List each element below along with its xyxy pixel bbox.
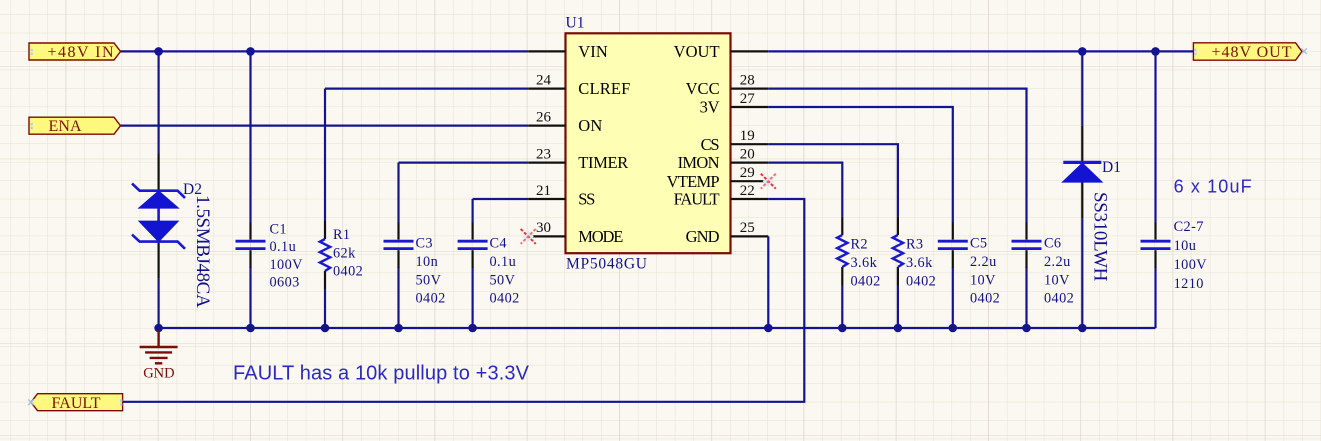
wire D2 vertical bottom xyxy=(158,279,160,328)
wire R2 vertical bottom xyxy=(841,286,843,329)
svg-text:+48V OUT: +48V OUT xyxy=(1212,44,1292,61)
pin ON stub xyxy=(528,124,565,126)
svg-text:0402: 0402 xyxy=(851,273,881,289)
pin IMON stub xyxy=(731,162,769,164)
svg-text:3V: 3V xyxy=(700,98,720,117)
svg-text:0402: 0402 xyxy=(1044,291,1074,307)
wire IMON to R2 xyxy=(768,163,842,217)
svg-text:0603: 0603 xyxy=(270,275,300,291)
svg-text:0402: 0402 xyxy=(970,291,1000,307)
junction top at C2-7 xyxy=(1151,47,1160,56)
ground xyxy=(140,330,178,363)
svg-text:ON: ON xyxy=(578,116,602,135)
wire R1 vertical bottom xyxy=(324,290,326,328)
wire C4 vertical bottom xyxy=(472,268,474,329)
svg-text:29: 29 xyxy=(740,165,755,181)
svg-text:VIN: VIN xyxy=(578,42,608,61)
wire D1 vertical bottom xyxy=(1081,219,1083,328)
wire D1 vertical top xyxy=(1081,51,1083,125)
svg-text:CS: CS xyxy=(701,135,720,154)
svg-text:100V: 100V xyxy=(1174,257,1208,273)
svg-text:10n: 10n xyxy=(416,254,439,270)
svg-text:28: 28 xyxy=(740,72,755,88)
svg-text:FAULT has a 10k pullup to +3.3: FAULT has a 10k pullup to +3.3V xyxy=(233,363,530,385)
svg-text:3.6k: 3.6k xyxy=(851,255,878,271)
svg-text:0402: 0402 xyxy=(333,264,363,280)
wire C3 to TIMER xyxy=(399,162,529,164)
svg-text:VCC: VCC xyxy=(686,79,720,98)
junction rail at C1 xyxy=(246,324,255,333)
svg-text:50V: 50V xyxy=(490,272,516,288)
svg-text:24: 24 xyxy=(536,72,552,88)
pin CS stub xyxy=(731,143,769,145)
junction top at C1 xyxy=(246,47,255,56)
svg-text:1210: 1210 xyxy=(1174,276,1204,292)
svg-text:10V: 10V xyxy=(970,272,996,288)
svg-text:CLREF: CLREF xyxy=(578,79,630,98)
pin CLREF stub xyxy=(528,87,565,89)
port ENA xyxy=(29,117,121,134)
svg-text:21: 21 xyxy=(536,183,551,199)
svg-text:0402: 0402 xyxy=(416,291,446,307)
svg-text:27: 27 xyxy=(740,91,756,107)
pin 3V stub xyxy=(731,106,769,108)
wire C5 vertical bottom xyxy=(952,268,954,329)
capacitor C1 xyxy=(236,223,266,269)
svg-text:VTEMP: VTEMP xyxy=(667,172,720,191)
svg-text:10V: 10V xyxy=(1044,272,1070,288)
wire VOUT to +48V OUT xyxy=(768,50,1193,52)
svg-text:C1: C1 xyxy=(270,221,287,237)
wire C1 vertical bottom xyxy=(249,268,251,329)
svg-text:6 x 10uF: 6 x 10uF xyxy=(1174,177,1252,197)
wire ENA to ON xyxy=(120,124,528,126)
svg-text:TIMER: TIMER xyxy=(578,153,628,172)
svg-text:C6: C6 xyxy=(1044,236,1061,252)
capacitor C5 xyxy=(938,223,968,269)
junction rail at C3 xyxy=(394,324,403,333)
wire ground rail xyxy=(159,327,1156,329)
diode D2 TVS xyxy=(132,154,185,279)
svg-text:MODE: MODE xyxy=(578,227,623,246)
svg-text:GND: GND xyxy=(143,366,174,382)
svg-text:25: 25 xyxy=(740,220,755,236)
junction top at D2 xyxy=(154,47,163,56)
svg-text:3.6k: 3.6k xyxy=(906,255,933,271)
svg-text:C5: C5 xyxy=(970,236,987,252)
junction top at D1 xyxy=(1078,47,1087,56)
junction rail at R3 xyxy=(894,324,903,333)
wire C1 vertical top xyxy=(249,51,251,222)
svg-text:ENA: ENA xyxy=(49,118,82,135)
pin FAULT stub xyxy=(731,198,769,200)
svg-text:C4: C4 xyxy=(490,236,507,252)
svg-text:FAULT: FAULT xyxy=(674,190,720,209)
wire VCC to C6 xyxy=(768,89,1026,223)
pin GND stub xyxy=(731,235,769,237)
wire R1 to CLREF xyxy=(325,87,528,89)
wire C3 vertical bottom xyxy=(397,268,399,329)
pin MODE stub xyxy=(528,235,565,237)
svg-text:0.1u: 0.1u xyxy=(270,239,297,255)
svg-text:C2-7: C2-7 xyxy=(1174,219,1204,235)
svg-text:10u: 10u xyxy=(1174,238,1197,254)
svg-text:U1: U1 xyxy=(566,15,585,32)
svg-text:23: 23 xyxy=(536,146,551,162)
pin VIN stub xyxy=(528,50,565,52)
svg-text:1.5SMBJ48CA: 1.5SMBJ48CA xyxy=(192,195,213,308)
svg-text:R2: R2 xyxy=(851,237,868,253)
svg-text:22: 22 xyxy=(740,183,755,199)
svg-text:26: 26 xyxy=(536,109,552,125)
svg-text:R1: R1 xyxy=(333,227,350,243)
svg-text:R3: R3 xyxy=(906,237,923,253)
capacitor C4 xyxy=(458,223,488,269)
wire GND pin down xyxy=(767,236,769,328)
resistor R3 xyxy=(893,217,903,286)
svg-text:+48V IN: +48V IN xyxy=(48,44,114,61)
diode D1 xyxy=(1063,125,1101,218)
wire R3 vertical bottom xyxy=(897,286,899,329)
svg-text:19: 19 xyxy=(740,128,755,144)
junction rail at R2 xyxy=(838,324,847,333)
capacitor C6 xyxy=(1012,223,1042,269)
wire FAULT pin to FAULT port xyxy=(123,199,805,402)
junction rail at D1 xyxy=(1078,324,1087,333)
svg-text:2.2u: 2.2u xyxy=(970,254,997,270)
junction rail at GND xyxy=(154,324,163,333)
svg-text:2.2u: 2.2u xyxy=(1044,254,1071,270)
junction rail at C5 xyxy=(949,324,958,333)
wire CS to R3 xyxy=(768,144,898,216)
svg-text:0402: 0402 xyxy=(906,273,936,289)
junction rail at R1 xyxy=(321,324,330,333)
junction rail at GND pin wire xyxy=(764,324,773,333)
capacitor C2-7 xyxy=(1141,223,1171,269)
port connection marks xyxy=(30,49,1196,406)
wire D2 vertical top xyxy=(158,51,160,154)
resistor R2 xyxy=(837,217,847,286)
pin VOUT stub xyxy=(731,50,769,52)
wire +48V IN to VIN xyxy=(120,50,528,52)
svg-text:D1: D1 xyxy=(1102,159,1121,176)
pin VCC stub xyxy=(731,87,769,89)
wire C2-7 vertical top xyxy=(1154,51,1156,222)
wire C4 to SS xyxy=(473,198,529,200)
pin SS stub xyxy=(528,198,565,200)
svg-text:20: 20 xyxy=(740,146,755,162)
pin VTEMP stub xyxy=(731,180,769,182)
svg-text:0.1u: 0.1u xyxy=(490,254,517,270)
wire R1 vertical top xyxy=(324,89,326,221)
port FAULT xyxy=(31,394,123,411)
svg-text:SS: SS xyxy=(578,190,595,209)
svg-text:100V: 100V xyxy=(270,257,304,273)
svg-text:MP5048GU: MP5048GU xyxy=(566,256,647,273)
svg-text:SS310LWH: SS310LWH xyxy=(1089,192,1110,282)
svg-text:C3: C3 xyxy=(416,236,433,252)
wire C2-7 vertical bottom xyxy=(1154,268,1156,329)
no-ERC marker at VTEMP pin xyxy=(761,174,776,189)
svg-text:62k: 62k xyxy=(333,245,356,261)
wire 3V to C5 xyxy=(768,107,953,223)
port +48V OUT xyxy=(1193,43,1302,60)
svg-text:30: 30 xyxy=(536,220,551,236)
svg-text:VOUT: VOUT xyxy=(674,42,720,61)
resistor R1 xyxy=(320,221,330,290)
pin TIMER stub xyxy=(528,162,565,164)
port +48V IN xyxy=(29,43,121,60)
svg-text:FAULT: FAULT xyxy=(52,395,101,412)
capacitor C3 xyxy=(384,223,414,269)
junction rail at C6 xyxy=(1022,324,1031,333)
svg-text:GND: GND xyxy=(686,227,720,246)
wire C4 vertical top xyxy=(472,199,474,223)
svg-text:50V: 50V xyxy=(416,272,442,288)
wire C6 vertical bottom xyxy=(1025,268,1027,329)
svg-text:IMON: IMON xyxy=(678,153,720,172)
svg-text:0402: 0402 xyxy=(490,291,520,307)
junction rail at C4 xyxy=(468,324,477,333)
no-ERC marker at MODE pin xyxy=(521,229,536,244)
wire C3 vertical top xyxy=(397,163,399,223)
IC U1 body MP5048GU xyxy=(566,33,731,253)
